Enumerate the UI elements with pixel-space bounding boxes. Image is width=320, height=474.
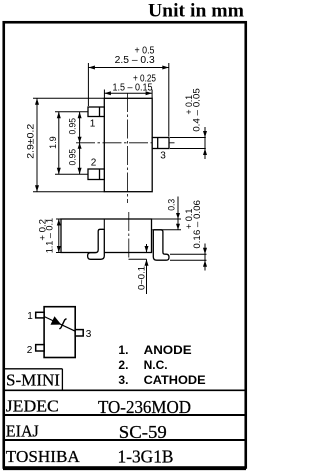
dimension 0.16 +0.1 -0.06 (lead thickness) [170,244,207,271]
svg-text:JEDEC: JEDEC [6,397,59,416]
svg-text:2.: 2. [118,358,128,372]
dimension 0.95 x2 (pin pitch) [79,112,81,175]
dimension 0.4 +0.1 -0.05 (pin 3 width) [170,127,206,159]
svg-text:S-MINI: S-MINI [6,371,60,390]
svg-text:1.: 1. [118,343,128,357]
table: S-MINI cell [3,369,62,391]
top view horizontal centerline [76,142,177,144]
table row JEDEC TO-236MOD [6,397,191,418]
dimension 1.5 +0.25 -0.15 (body width) [104,90,152,99]
pin list: 1. ANODE [118,343,191,357]
svg-text:3.: 3. [118,373,128,387]
svg-text:SC-59: SC-59 [119,422,167,442]
svg-text:1.1 – 0.1: 1.1 – 0.1 [45,218,56,253]
svg-text:TO-236MOD: TO-236MOD [98,397,191,417]
svg-text:0.95: 0.95 [68,118,79,135]
dimension 0.3 (lead offset from body top) [152,197,181,230]
pin list: 2. N.C. [118,358,167,372]
svg-text:N.C.: N.C. [144,358,168,372]
svg-text:0.3: 0.3 [167,199,178,211]
svg-text:1.9: 1.9 [48,136,59,149]
svg-text:EIAJ: EIAJ [6,422,39,441]
svg-text:1-3G1B: 1-3G1B [118,446,174,466]
svg-text:0~0.1: 0~0.1 [136,266,147,290]
svg-text:Unit in mm: Unit in mm [148,1,244,22]
table row lines [3,390,246,440]
svg-text:2.9±0.2: 2.9±0.2 [25,124,36,159]
zener diode symbol: cathode zener bar [59,319,66,329]
dimension 2.9 +/-0.2 (body length) [33,98,104,191]
pin 1 lead (top view) [88,107,104,117]
side view right gull-wing lead (pin 3) [153,230,169,260]
table row TOSHIBA 1-3G1B [6,446,174,466]
svg-text:1.5 – 0.15: 1.5 – 0.15 [113,82,153,93]
svg-text:ANODE: ANODE [144,343,192,357]
pin diagram body [44,307,75,358]
dimension 1.1 +0.2 -0.1 (body height) [56,219,61,253]
pin 2 lead (top view) [88,169,104,180]
pin diagram pin 3 lead [75,330,83,336]
svg-text:0.16 – 0.06: 0.16 – 0.06 [192,200,203,249]
table row EIAJ SC-59 [6,422,167,442]
svg-text:3: 3 [160,151,166,162]
svg-text:3: 3 [86,329,92,340]
svg-text:0.95: 0.95 [68,149,79,166]
dimension 1.9 (pin1 to pin2 centers) [55,112,88,175]
side view left gull-wing lead (pins 1/2) [88,219,105,259]
top view vertical centerline [127,93,129,203]
pin diagram pin 1 lead [36,312,44,318]
dimension 2.5 +0.5 -0.3 (overall width) [88,63,168,137]
svg-text:TOSHIBA: TOSHIBA [6,447,81,466]
side view centerline [128,212,130,258]
svg-text:2: 2 [91,158,97,169]
border frame [3,22,246,468]
svg-text:2.5 – 0.3: 2.5 – 0.3 [115,55,155,66]
title: Unit in mm [148,1,244,22]
svg-text:CATHODE: CATHODE [144,373,206,387]
svg-text:0.4 – 0.05: 0.4 – 0.05 [192,88,203,132]
svg-text:1: 1 [27,311,33,322]
zener diode symbol: anode triangle [51,317,60,324]
zener diode symbol: anode-cathode wire [44,317,75,332]
side view body [61,219,152,253]
pin diagram pin 2 lead [36,345,44,351]
svg-text:2: 2 [27,345,33,356]
pin list: 3. CATHODE [118,373,205,387]
svg-text:1: 1 [90,118,96,129]
top view body [104,98,152,191]
pin 3 lead (top view) [152,138,169,149]
dimension 0~0.1 (standoff) [129,244,147,294]
